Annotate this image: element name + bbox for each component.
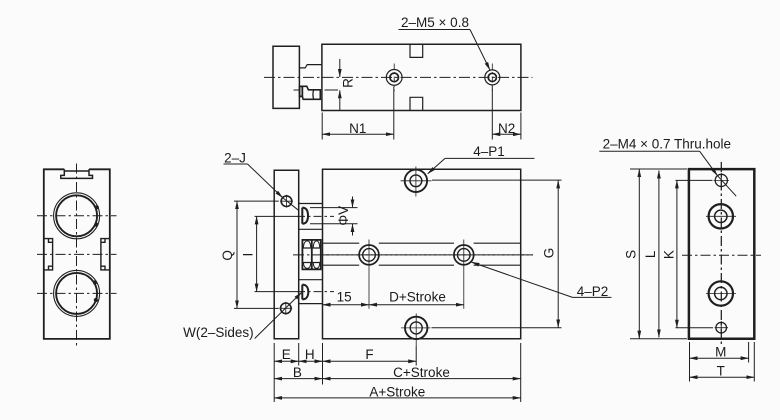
top view port hole 2 outer circle	[485, 70, 500, 85]
dimension H line	[299, 360, 323, 362]
svg-text:I: I	[240, 253, 255, 257]
dimension K line	[676, 180, 678, 327]
left view lower bore outer circle	[54, 270, 100, 316]
left view upper bore screw dot 1	[95, 205, 99, 209]
front view bottom rod centerline	[297, 291, 334, 293]
dimension N2 line	[492, 133, 521, 135]
front view top rod boss	[302, 208, 308, 224]
label 4-P2 underline	[573, 296, 612, 298]
front view bottom rod upper line	[299, 279, 323, 281]
front view nut facet arcs	[303, 241, 319, 269]
right view top thread hole M4	[715, 174, 727, 186]
svg-text:B: B	[293, 365, 302, 380]
top view port hole 1 inner circle	[390, 73, 399, 82]
right view lower port hole inner	[715, 287, 727, 299]
front view top rod centerline	[297, 215, 334, 217]
dimension phiV lower arrow	[352, 224, 354, 236]
dimension Q line	[236, 201, 238, 308]
right view bottom thread hole M4	[716, 322, 727, 333]
front view top rod upper line	[299, 203, 323, 205]
svg-text:ΦV: ΦV	[336, 206, 351, 226]
front view mounting plate	[274, 170, 299, 338]
dimension I line	[256, 216, 258, 291]
svg-text:L: L	[643, 250, 658, 258]
front view piston rod nut outline	[302, 240, 320, 270]
svg-text:G: G	[542, 248, 557, 259]
left view body outline	[44, 169, 110, 339]
dimension M-T left extension	[689, 342, 691, 382]
top view port hole 2 inner circle	[488, 73, 496, 81]
left view upper bore screw dot 2	[94, 223, 98, 227]
top view rod nut	[302, 86, 320, 99]
front view port hole P2 left	[359, 245, 379, 265]
top view mounting plate	[273, 46, 299, 108]
dimension G top extension	[432, 179, 562, 181]
leader 4-P2	[472, 262, 573, 297]
dimension phiV upper extension	[310, 207, 358, 209]
dimension I bottom extension	[255, 291, 299, 293]
extension bottom hole center	[415, 346, 417, 366]
right view top thread hole crosshair	[714, 173, 730, 188]
dimension N2 left extension	[491, 87, 493, 140]
svg-text:Q: Q	[220, 250, 235, 261]
svg-text:A+Stroke: A+Stroke	[369, 384, 425, 399]
front view port hole P2 left crosshair extension	[368, 240, 370, 309]
front view centerline inside body	[323, 254, 534, 256]
dimension R extension tick	[294, 89, 339, 91]
extension plate right bottom	[298, 343, 300, 366]
dimension S line	[638, 169, 640, 338]
dimension M line	[690, 357, 749, 359]
label 4-P1 underline	[445, 157, 535, 159]
svg-text:15: 15	[337, 290, 352, 305]
dimension T line	[690, 376, 755, 378]
front view bottom mounting hole P1 inner	[410, 322, 422, 334]
front view port hole P2 right crosshair extension	[463, 240, 465, 309]
front view body outline	[323, 169, 521, 339]
leader 2-J continuation	[283, 198, 299, 211]
right view bottom thread hole crosshair	[715, 321, 729, 334]
leader 4-P1	[428, 158, 445, 173]
front view horizontal centerline	[293, 254, 533, 256]
left view lower bore screw dot 2	[94, 298, 98, 302]
leader 2-M4 with arrow	[700, 151, 718, 176]
dimension S top extension	[630, 168, 687, 170]
dimension G line	[557, 180, 559, 327]
front view plate screw lower crosshair	[279, 302, 292, 315]
svg-text:2–J: 2–J	[224, 151, 246, 166]
front view bore line upper	[323, 242, 521, 244]
top view sensor slot top	[410, 44, 423, 57]
leader 2-M5x0.8	[470, 30, 490, 70]
top view horizontal centerline	[264, 76, 533, 78]
dimension K top extension	[676, 179, 713, 181]
front view nut mid vertical	[311, 240, 313, 270]
svg-text:N1: N1	[349, 121, 366, 136]
left view upper bore inner circle	[56, 195, 97, 236]
dimension R upper arrow	[339, 59, 341, 77]
dimension N1 left extension	[321, 113, 323, 140]
front view top hole crosshair	[401, 167, 432, 197]
leader 2-J first segment with arrow	[248, 164, 283, 198]
right view vertical centerline	[720, 162, 722, 346]
front view top mounting hole P1 inner	[410, 175, 422, 187]
leader W	[255, 293, 302, 339]
extension body left bottom	[322, 343, 324, 385]
extension plate left bottom	[273, 343, 275, 402]
label 2-M5x0.8 underline	[399, 29, 471, 31]
front view plate screw hole upper (J)	[281, 196, 292, 207]
front view port hole P2 right	[454, 245, 474, 265]
dimension B line	[274, 378, 322, 380]
top view port hole 2 vertical crosshair	[491, 64, 493, 92]
top view port hole 1 outer circle	[386, 70, 402, 86]
front view bottom rod boss	[302, 285, 308, 300]
right view lower port hole	[709, 281, 733, 305]
svg-text:2–M5 × 0.8: 2–M5 × 0.8	[401, 15, 469, 30]
left view lower bore screw dot 1	[93, 280, 97, 284]
front view port hole P2 right inner	[458, 249, 471, 262]
dimension A+Stroke line	[274, 397, 521, 399]
left view vertical centerline	[76, 164, 78, 347]
svg-text:K: K	[662, 250, 677, 259]
left view right sensor groove	[101, 239, 110, 270]
right view upper port hole	[709, 204, 733, 228]
dimension E line	[274, 360, 299, 362]
dimension Q bottom extension	[234, 307, 279, 309]
right view upper port crosshair	[706, 215, 736, 217]
front view port hole P2 left inner	[363, 249, 376, 262]
svg-text:E: E	[282, 347, 291, 362]
right view mid horizontal centerline	[682, 254, 761, 256]
dimension T right extension	[753, 342, 755, 382]
dimension phiV lower extension	[310, 223, 358, 225]
left view vertical centerline over body	[76, 164, 78, 347]
left view top mounting notch	[61, 169, 93, 178]
right view lower port crosshair	[706, 293, 736, 295]
dimension N1 line	[322, 133, 394, 135]
front view bottom rod lower line	[299, 303, 323, 305]
svg-text:4–P1: 4–P1	[473, 144, 505, 159]
front view nut chamfer line lower	[302, 262, 320, 264]
svg-text:R: R	[340, 78, 355, 88]
svg-text:F: F	[365, 347, 373, 362]
left view lower bore horizontal centerline	[37, 292, 117, 294]
top view rod collar	[300, 86, 303, 96]
svg-text:C+Stroke: C+Stroke	[393, 365, 450, 380]
leader 2-M4 continuation	[718, 176, 737, 197]
front view top mounting hole P1	[405, 170, 427, 192]
extension body right bottom	[520, 343, 522, 402]
dimension G bottom extension	[432, 327, 562, 329]
top view body outline	[322, 44, 521, 110]
dimension N1 right extension	[393, 87, 395, 140]
front view bore line lower	[323, 264, 521, 266]
dimension I top extension	[255, 215, 299, 217]
front view plate screw upper crosshair	[280, 195, 293, 208]
front view bottom mounting hole P1	[405, 317, 427, 339]
left view upper bore horizontal centerline	[37, 215, 117, 217]
dimension Q top extension	[234, 200, 279, 202]
top view rod hub top line	[299, 65, 322, 68]
dimension R lower arrow	[339, 90, 341, 110]
svg-text:N2: N2	[498, 121, 515, 136]
right view upper port hole inner	[715, 210, 727, 222]
label 2-M4 underline	[599, 150, 699, 152]
svg-text:T: T	[717, 363, 725, 378]
dimension S bottom extension	[630, 338, 687, 340]
svg-text:4–P2: 4–P2	[577, 284, 609, 299]
svg-text:W(2–Sides): W(2–Sides)	[183, 325, 254, 340]
dimension D+Stroke line	[369, 304, 464, 306]
top view sensor slot bottom	[410, 97, 423, 110]
svg-text:S: S	[624, 250, 639, 259]
dimension K bottom extension	[676, 327, 714, 329]
dimension N2 right extension	[520, 113, 522, 140]
dimension L line	[658, 171, 660, 338]
svg-text:D+Stroke: D+Stroke	[389, 290, 446, 305]
left view mid horizontal centerline	[37, 253, 117, 255]
front view nut chamfer line upper	[302, 247, 320, 249]
label 2-J underline	[224, 163, 248, 165]
top view rod nut inner line	[312, 90, 315, 100]
svg-text:2–M4 × 0.7 Thru.hole: 2–M4 × 0.7 Thru.hole	[603, 137, 731, 152]
front view plate screw hole lower (J)	[281, 303, 292, 314]
right view body outline	[689, 169, 754, 339]
dimension M right extension	[748, 342, 750, 363]
left view upper bore outer circle	[54, 193, 100, 239]
dimension F line	[323, 360, 417, 362]
left view left sensor groove	[44, 239, 53, 270]
dimension phiV upper arrow	[352, 197, 354, 208]
svg-text:M: M	[715, 344, 726, 359]
right view vertical centerline inside	[720, 162, 722, 346]
svg-text:H: H	[305, 347, 315, 362]
dimension C+Stroke line	[323, 378, 521, 380]
front view bottom hole crosshair	[401, 314, 431, 347]
top view port hole 1 vertical crosshair	[393, 64, 395, 92]
left view lower bore inner circle	[56, 273, 97, 314]
dimension 15 line	[323, 304, 370, 306]
front view top rod lower line	[299, 228, 323, 230]
